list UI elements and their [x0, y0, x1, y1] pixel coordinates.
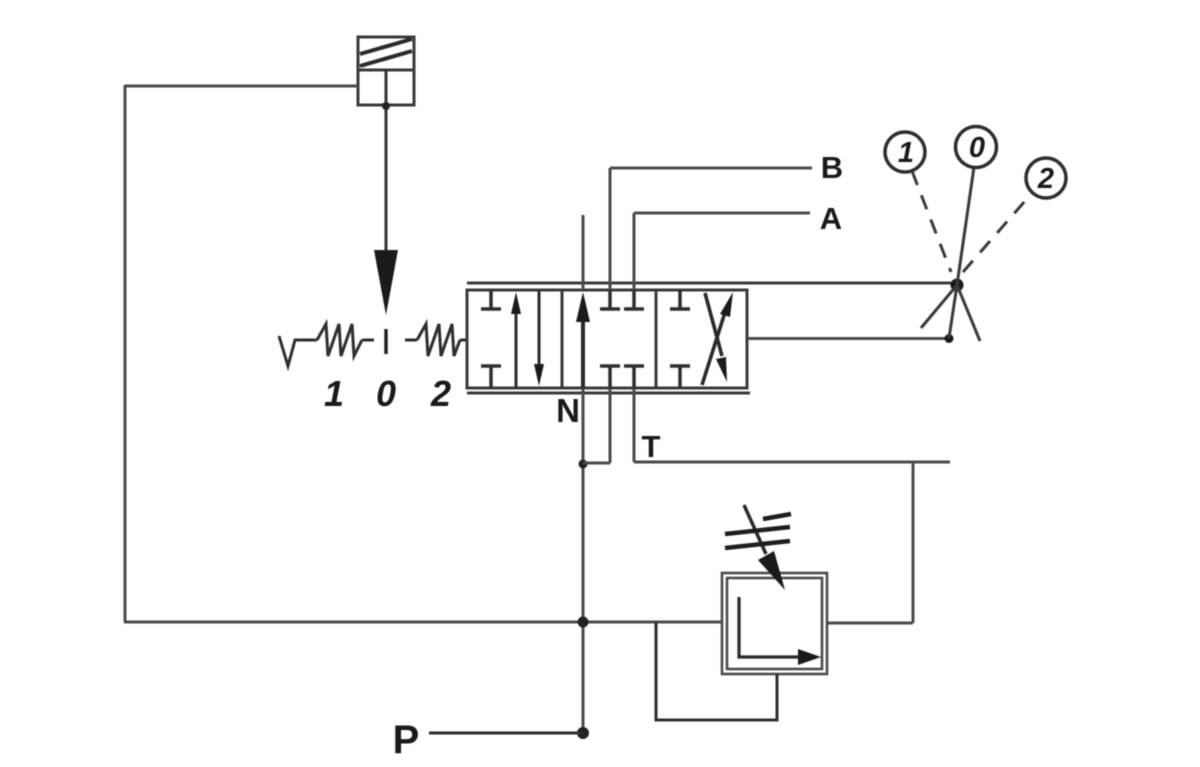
wire load-sense stub above valve	[582, 215, 585, 290]
neutral box blocked port A top	[624, 290, 644, 309]
spring left (position 1 side)	[279, 324, 374, 366]
wire valve to lever (mid)	[747, 337, 949, 340]
svg-text:T: T	[642, 429, 661, 464]
wire jog from valve port to N line	[583, 388, 610, 463]
neutral box blocked port B top	[600, 290, 620, 309]
dashed link below arrow	[384, 329, 388, 354]
wire pilot input (left horizontal into pilot valve)	[125, 85, 358, 88]
node N junction	[579, 460, 588, 469]
svg-text:2: 2	[430, 373, 451, 414]
relief valve adjustment spring slashes	[725, 514, 791, 548]
node main pressure junction	[578, 617, 589, 628]
neutral box blocked port bottom left	[600, 366, 620, 388]
lever handle leg 2	[957, 285, 980, 341]
node P junction	[577, 727, 589, 739]
wire relief valve pilot loop	[656, 622, 777, 720]
node lever link	[945, 334, 954, 343]
lever line to detent 0 (solid)	[957, 167, 974, 285]
position-2 box blocked port top	[670, 290, 690, 309]
node lever pivot	[951, 279, 964, 292]
detent circle 1	[885, 132, 925, 172]
pilot control arrow (down)	[374, 250, 398, 315]
main valve body V1	[467, 290, 747, 388]
spring right (position 2 side)	[405, 324, 467, 356]
svg-text:P: P	[393, 718, 420, 762]
lever line to detent 1 (dashed)	[912, 171, 951, 272]
wire T line	[634, 388, 950, 623]
svg-text:A: A	[820, 201, 842, 236]
pilot valve proportional arrows	[360, 39, 412, 66]
svg-text:0: 0	[376, 373, 396, 414]
valve outer top line (extends to lever pivot)	[467, 282, 957, 285]
relief valve internal flow arrow	[739, 597, 821, 665]
wire N line down from valve	[582, 388, 585, 733]
position-2 crossed arrow 1	[702, 292, 733, 385]
detent circle 2	[1026, 158, 1066, 198]
position-2 box blocked port bottom	[670, 366, 690, 388]
pilot valve Y1 body	[358, 37, 414, 105]
relief valve adjustment arrow	[744, 505, 785, 590]
svg-text:N: N	[556, 392, 580, 429]
lever handle leg 0	[949, 285, 957, 338]
position-2 crossed arrow 2	[705, 293, 727, 382]
wire left loop vertical	[124, 85, 127, 622]
position-1 box blocked port bottom	[481, 366, 501, 388]
wire relief valve outlet to T	[827, 622, 913, 625]
wire pilot output down	[385, 70, 388, 252]
lever line to detent 2 (dashed)	[963, 193, 1032, 272]
svg-text:0: 0	[969, 132, 985, 164]
neutral box blocked port bottom right	[624, 366, 644, 388]
svg-text:1: 1	[898, 137, 914, 169]
svg-text:1: 1	[324, 373, 344, 414]
wire P inlet	[429, 732, 583, 735]
neutral box load-sense arrow up (thick)	[576, 292, 590, 388]
svg-text:B: B	[821, 150, 843, 185]
position-1 flow arrow up	[511, 292, 521, 388]
svg-text:2: 2	[1037, 163, 1054, 195]
position-1 box blocked port top	[481, 290, 501, 309]
junction pilot output	[382, 102, 390, 110]
wire left loop bottom horizontal	[124, 621, 723, 624]
wire port B	[610, 168, 812, 290]
lever handle leg 1	[921, 285, 957, 328]
wire port A	[634, 213, 810, 290]
position-1 flow arrow down	[534, 290, 544, 386]
valve outer bottom line	[467, 392, 750, 395]
relief valve RV1 body (double border)	[722, 573, 827, 674]
detent circle 0	[956, 127, 997, 168]
